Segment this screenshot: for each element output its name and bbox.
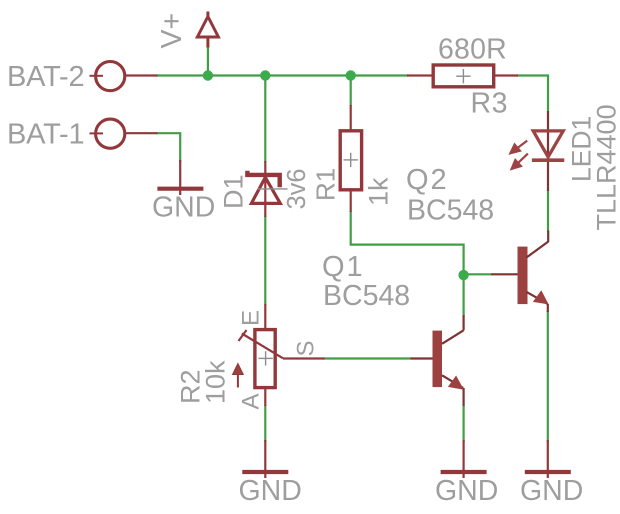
- wire BAT-1 to GND: [156, 133, 180, 162]
- svg-text:BAT-1: BAT-1: [7, 119, 84, 151]
- ground symbol under Q2: [525, 440, 571, 478]
- ground symbol under BAT-1: [157, 160, 203, 195]
- wire node to R1: [350, 76, 352, 107]
- svg-text:Q2: Q2: [406, 164, 449, 196]
- wire R1 to Q1 collector and Q2 base: [351, 211, 464, 316]
- svg-text:R1: R1: [311, 168, 341, 201]
- junction node at V+ stem: [203, 70, 213, 80]
- svg-text:BAT-2: BAT-2: [7, 61, 84, 93]
- svg-text:GND: GND: [520, 475, 583, 507]
- wire Q2 emitter to GND: [547, 311, 549, 442]
- ground symbol under R2: [242, 440, 288, 478]
- LED LED1: [532, 111, 564, 191]
- svg-text:680R: 680R: [438, 34, 507, 66]
- svg-text:1k: 1k: [364, 177, 394, 206]
- LED1 emission arrows: [510, 141, 528, 169]
- origin cross R2: [258, 351, 272, 365]
- junction node at D1 branch: [260, 70, 270, 80]
- potentiometer R2 adjust arrow: [233, 364, 244, 388]
- wire Q2 base segment: [464, 273, 491, 275]
- supply symbol V+: [197, 12, 218, 48]
- svg-text:V+: V+: [156, 13, 188, 49]
- svg-text:3v6: 3v6: [283, 168, 311, 209]
- wire D1 to R2: [264, 216, 266, 305]
- ground symbol under Q1: [441, 440, 487, 478]
- junction node at R1 branch: [346, 70, 356, 80]
- connector pad BAT-2: [90, 62, 158, 91]
- wire net V+ rail from BAT-2 to R3: [156, 74, 408, 76]
- svg-text:A: A: [238, 393, 265, 409]
- svg-text:E: E: [238, 310, 265, 326]
- svg-text:GND: GND: [239, 475, 302, 507]
- connector pad BAT-1: [90, 119, 158, 148]
- svg-text:R3: R3: [471, 87, 508, 119]
- origin cross R3: [456, 69, 470, 83]
- transistor Q2 BC548: [491, 231, 549, 313]
- svg-text:TLLR4400: TLLR4400: [592, 104, 620, 230]
- svg-text:D1: D1: [219, 174, 249, 209]
- origin cross R1: [344, 153, 358, 167]
- svg-text:10k: 10k: [201, 360, 231, 404]
- potentiometer R2 wiper: [239, 330, 325, 359]
- potentiometer R2: [255, 304, 275, 406]
- svg-text:BC548: BC548: [323, 280, 410, 312]
- svg-text:GND: GND: [152, 192, 215, 224]
- wire LED1 cathode to Q2 collector: [547, 190, 549, 232]
- svg-text:GND: GND: [435, 475, 498, 507]
- wire node to D1: [264, 76, 266, 163]
- transistor Q1 BC548: [411, 315, 464, 406]
- zener diode D1: [247, 161, 280, 217]
- wire R2 bottom to GND: [264, 405, 266, 442]
- svg-text:S: S: [293, 340, 320, 356]
- wire Q1 emitter to GND: [463, 405, 465, 442]
- wire V+ stem: [207, 47, 209, 76]
- svg-text:Q1: Q1: [322, 251, 365, 283]
- svg-text:BC548: BC548: [407, 195, 494, 227]
- junction node at Q2 base: [458, 270, 468, 280]
- wire R2 wiper S to Q1 base: [324, 357, 412, 359]
- wire R3 to LED1: [517, 76, 548, 113]
- origin cross D1: [258, 188, 288, 190]
- resistor R3: [407, 65, 518, 87]
- resistor R1: [340, 105, 361, 212]
